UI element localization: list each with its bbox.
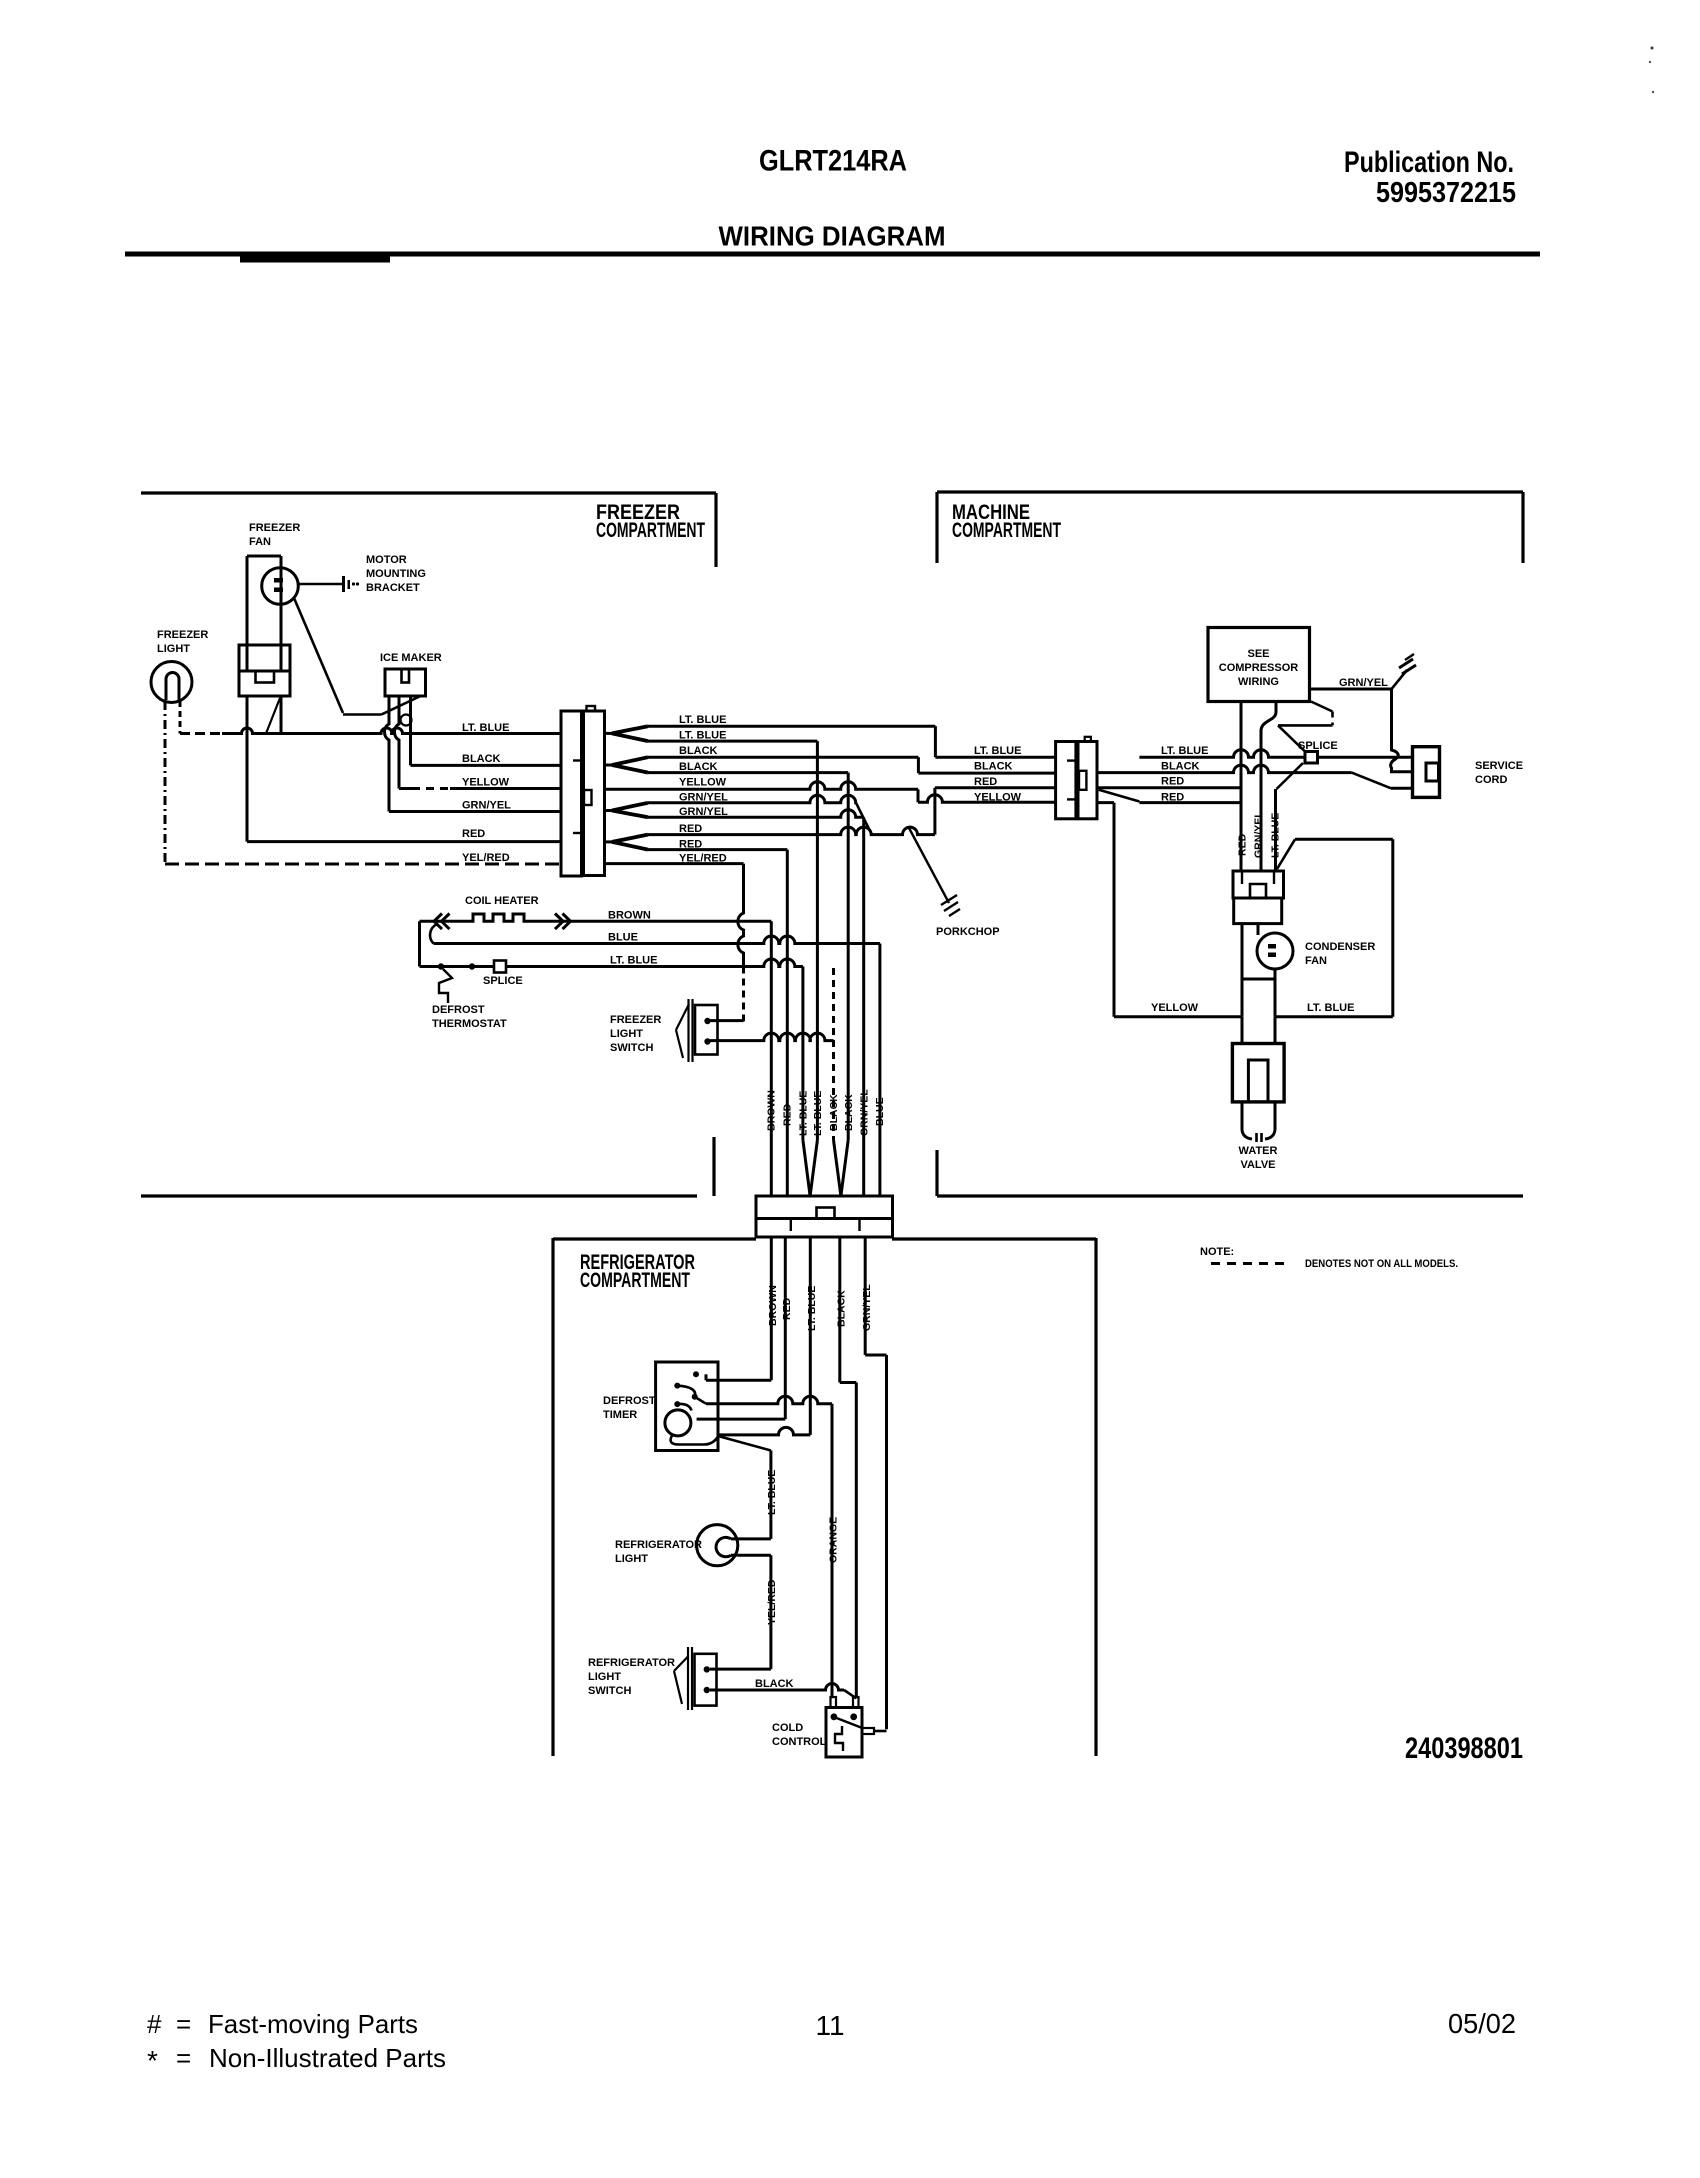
svg-text:Non-Illustrated Parts: Non-Illustrated Parts <box>209 2043 446 2073</box>
wire LT. BLUE condenser loop <box>1277 839 1295 869</box>
svg-text:GRN/YEL: GRN/YEL <box>1253 811 1265 858</box>
refrigerator light switch <box>687 1647 689 1710</box>
wire RED to timer motor <box>784 1237 787 1419</box>
svg-text:YEL/RED: YEL/RED <box>462 852 510 864</box>
svg-text:DEFROST: DEFROST <box>603 1395 656 1407</box>
svg-text:CONTROL: CONTROL <box>772 1736 827 1748</box>
wire BLACK dashed down to bundle <box>832 968 835 1140</box>
svg-text:BLACK: BLACK <box>843 1094 855 1131</box>
refrigerator border top-left segment <box>553 1237 756 1240</box>
wire YELLOW through to machine <box>605 782 918 789</box>
wire YEL/RED right side <box>605 862 744 865</box>
svg-text:LIGHT: LIGHT <box>157 643 190 655</box>
defrost timer <box>656 1362 718 1451</box>
ice maker connector <box>385 669 426 696</box>
svg-text:VALVE: VALVE <box>1240 1159 1275 1171</box>
svg-text:GRN/YEL: GRN/YEL <box>861 1284 873 1331</box>
wire BLACK freezer side <box>411 764 562 767</box>
svg-text:YEL/RED: YEL/RED <box>766 1579 778 1625</box>
freezer fan connector block <box>239 645 290 696</box>
svg-text:BROWN: BROWN <box>767 1285 779 1326</box>
svg-text:BROWN: BROWN <box>608 910 651 922</box>
svg-text:RED: RED <box>1161 776 1184 788</box>
wire RED upper to machine <box>648 827 935 835</box>
svg-text:LT. BLUE: LT. BLUE <box>610 955 657 967</box>
svg-text:MOUNTING: MOUNTING <box>366 568 426 580</box>
svg-text:COLD: COLD <box>772 1722 803 1734</box>
machine border bottom <box>937 1194 1523 1197</box>
machine border left stub top <box>935 492 938 563</box>
wire RED down to refrigerator bundle <box>648 848 787 851</box>
svg-text:DEFROST: DEFROST <box>432 1004 485 1016</box>
wire fan left pin down <box>246 696 249 842</box>
freezer fan motor <box>262 568 299 605</box>
svg-text:GRN/YEL: GRN/YEL <box>1339 677 1388 689</box>
svg-text:LT. BLUE: LT. BLUE <box>812 1091 824 1136</box>
svg-text:THERMOSTAT: THERMOSTAT <box>432 1018 507 1030</box>
freezer border right stub top <box>714 493 717 567</box>
condenser fan <box>1241 924 1244 1017</box>
svg-text:YELLOW: YELLOW <box>462 777 510 789</box>
svg-text:COMPARTMENT: COMPARTMENT <box>952 519 1061 542</box>
svg-text:NOTE:: NOTE: <box>1200 1246 1234 1258</box>
water valve <box>1241 1017 1244 1044</box>
svg-text:FAN: FAN <box>249 536 271 548</box>
svg-text:5995372215: 5995372215 <box>1376 177 1516 209</box>
main connector (freezer/machine harness) <box>561 711 582 876</box>
svg-text:YELLOW: YELLOW <box>1151 1002 1199 1014</box>
wire LT. BLUE freezer side <box>222 728 561 733</box>
wire switch bottom to BLACK dashed <box>710 1033 834 1040</box>
svg-text:BLUE: BLUE <box>608 932 638 944</box>
motor mounting bracket <box>298 583 342 586</box>
see compressor wiring box <box>1208 628 1310 702</box>
svg-text:BLACK: BLACK <box>462 753 501 765</box>
splice <box>1305 752 1318 764</box>
svg-text:COMPARTMENT: COMPARTMENT <box>580 1269 690 1292</box>
svg-text:LT. BLUE: LT. BLUE <box>679 714 726 726</box>
wire RED freezer side <box>247 840 561 843</box>
coil heater left end <box>418 921 421 966</box>
wire ORANGE timer to cold control <box>695 1397 706 1404</box>
svg-text:RED: RED <box>679 838 702 850</box>
wire compressor pin B <box>1261 702 1276 872</box>
machine harness connector <box>1056 742 1076 819</box>
svg-text:240398801: 240398801 <box>1405 1732 1523 1765</box>
svg-text:LT. BLUE: LT. BLUE <box>679 730 726 742</box>
svg-text:Fast-moving Parts: Fast-moving Parts <box>208 2009 418 2039</box>
freezer light <box>151 662 192 703</box>
freezer fan housing <box>246 556 249 671</box>
wire RED second row <box>1099 790 1140 802</box>
svg-text:BLACK: BLACK <box>836 1290 848 1327</box>
service cord <box>1413 747 1440 798</box>
svg-text:SPLICE: SPLICE <box>483 975 523 987</box>
svg-text:FREEZER: FREEZER <box>610 1014 661 1026</box>
machine border top <box>937 490 1523 493</box>
paper speck marks top right <box>1651 47 1654 50</box>
svg-text:GRN/YEL: GRN/YEL <box>679 806 728 818</box>
porkchop pointer <box>909 828 949 903</box>
freezer border bottom <box>141 1194 697 1197</box>
svg-text:MOTOR: MOTOR <box>366 554 407 566</box>
svg-text:LIGHT: LIGHT <box>588 1671 621 1683</box>
wire BLUE <box>430 924 437 944</box>
svg-text:GRN/YEL: GRN/YEL <box>462 800 511 812</box>
svg-text:ORANGE: ORANGE <box>828 1517 840 1563</box>
wire BROWN down to refrigerator bundle <box>770 921 773 1196</box>
svg-text:RED: RED <box>1161 792 1184 804</box>
wire switch top to YEL/RED <box>710 1019 744 1022</box>
coil heater right chevrons <box>555 914 571 930</box>
wire freezer light right lead (dashed) <box>179 701 182 734</box>
wire LT. BLUE to machine compartment <box>648 725 935 728</box>
svg-text:CORD: CORD <box>1475 774 1507 786</box>
svg-text:SWITCH: SWITCH <box>588 1685 631 1697</box>
svg-text:SEE: SEE <box>1247 648 1269 660</box>
svg-text:LT. BLUE: LT. BLUE <box>806 1286 818 1331</box>
wire light bottom YEL/RED to switch <box>738 1554 771 1557</box>
svg-text:SWITCH: SWITCH <box>610 1042 653 1054</box>
svg-text:WATER: WATER <box>1239 1145 1278 1157</box>
compressor overload relay <box>1233 871 1284 898</box>
svg-text:PORKCHOP: PORKCHOP <box>936 926 1000 938</box>
svg-text:GLRT214RA: GLRT214RA <box>759 145 907 178</box>
wire LT. BLUE defrost circuit <box>420 959 803 967</box>
svg-text:=: = <box>176 2043 191 2073</box>
wire fan diagonal lead <box>266 698 280 734</box>
wire GRN/YEL down to cold control <box>864 1237 867 1355</box>
splice diagonals <box>1278 725 1305 751</box>
freezer compartment border top <box>141 491 716 494</box>
svg-text:REFRIGERATOR: REFRIGERATOR <box>615 1539 702 1551</box>
svg-text:BLACK: BLACK <box>828 1094 840 1131</box>
svg-text:RED: RED <box>679 823 702 835</box>
svg-text:COMPARTMENT: COMPARTMENT <box>596 519 705 542</box>
svg-text:COIL HEATER: COIL HEATER <box>465 895 539 907</box>
svg-text:DENOTES NOT ON ALL MODELS.: DENOTES NOT ON ALL MODELS. <box>1305 1258 1458 1270</box>
svg-text:LT. BLUE: LT. BLUE <box>766 1470 778 1515</box>
refrigerator harness connector <box>756 1196 893 1237</box>
svg-text:CONDENSER: CONDENSER <box>1305 941 1375 953</box>
svg-text:RED: RED <box>781 1297 793 1320</box>
wire GRN/YEL down to service cord <box>1391 689 1413 772</box>
svg-text:ICE MAKER: ICE MAKER <box>380 652 442 664</box>
svg-text:BLACK: BLACK <box>679 745 718 757</box>
crimp pair RED <box>605 840 612 843</box>
svg-text:RED: RED <box>782 1103 794 1126</box>
cold control <box>826 1708 862 1758</box>
svg-text:FAN: FAN <box>1305 955 1327 967</box>
svg-text:LT. BLUE: LT. BLUE <box>974 745 1021 757</box>
machine border right stub top <box>1521 492 1524 563</box>
svg-text:05/02: 05/02 <box>1448 2008 1516 2039</box>
machine border left stub bottom <box>935 1150 938 1196</box>
chassis ground <box>1399 659 1413 668</box>
wire BLACK to machine compartment <box>648 756 918 759</box>
freezer light switch <box>687 999 689 1062</box>
refrigerator border right <box>1094 1238 1097 1756</box>
svg-text:REFRIGERATOR: REFRIGERATOR <box>588 1657 675 1669</box>
svg-text:LT. BLUE: LT. BLUE <box>1161 745 1208 757</box>
wire light top to LT. BLUE <box>738 1537 771 1540</box>
wire freezer light to YEL/RED (dashed) <box>164 701 167 864</box>
bundle V-merge BLACK <box>834 1140 841 1196</box>
wire compressor pin A <box>1240 702 1243 872</box>
svg-text:TIMER: TIMER <box>603 1409 637 1421</box>
svg-text:LT. BLUE: LT. BLUE <box>798 1091 810 1136</box>
wire GRN/YEL freezer side <box>389 810 561 813</box>
wire BROWN to defrost timer <box>770 1237 773 1380</box>
svg-text:BLACK: BLACK <box>1161 761 1200 773</box>
wire BLACK down to cold control <box>838 1237 841 1383</box>
svg-text:LT. BLUE: LT. BLUE <box>462 722 509 734</box>
wire motor to ice maker <box>294 598 343 713</box>
svg-text:GRN/YEL: GRN/YEL <box>859 1089 871 1136</box>
svg-text:LIGHT: LIGHT <box>615 1553 648 1565</box>
wire BLACK machine to service cord <box>1097 765 1352 772</box>
svg-text:RED: RED <box>1237 833 1249 856</box>
coil heater left chevrons <box>434 914 450 930</box>
ice maker pin 2 to YELLOW <box>395 696 400 789</box>
crimp pair LT. BLUE <box>605 732 612 735</box>
wire YEL/RED down with wiggles <box>738 864 744 967</box>
svg-text:BLACK: BLACK <box>755 1678 794 1690</box>
wire GRN/YEL upper to junction <box>648 795 856 803</box>
svg-text:SPLICE: SPLICE <box>1298 740 1338 752</box>
wire switch top to YEL/RED <box>710 1668 771 1671</box>
wire compressor dashed branch <box>1311 702 1333 712</box>
ice maker pin 1 to GRN/YEL <box>385 696 390 812</box>
svg-text:WIRING: WIRING <box>1238 676 1279 688</box>
refrigerator light <box>697 1525 738 1566</box>
wire LT. BLUE to timer <box>809 1237 812 1435</box>
wire LT. BLUE branch to refrigerator light <box>718 1436 771 1451</box>
ice maker pin loop <box>401 715 412 726</box>
svg-text:=: = <box>176 2009 191 2039</box>
svg-text:YELLOW: YELLOW <box>974 792 1022 804</box>
title rule <box>125 252 1540 257</box>
defrost thermostat <box>438 963 444 969</box>
refrigerator border top-right segment <box>892 1237 1096 1240</box>
wire LT. BLUE down to refrigerator bundle <box>648 740 817 743</box>
wire YELLOW to water valve <box>1114 1015 1242 1018</box>
svg-text:LT. BLUE: LT. BLUE <box>1307 1002 1354 1014</box>
svg-text:BRACKET: BRACKET <box>366 582 420 594</box>
svg-text:BLACK: BLACK <box>679 761 718 773</box>
svg-text:YEL/RED: YEL/RED <box>679 852 727 864</box>
wire RED machine row <box>1097 786 1241 789</box>
svg-text:RED: RED <box>462 828 485 840</box>
wire BLACK down to refrigerator bundle <box>648 771 848 774</box>
wire GRN/YEL down to refrigerator bundle <box>648 810 864 818</box>
svg-text:Publication No.: Publication No. <box>1344 146 1514 179</box>
svg-text:BROWN: BROWN <box>766 1090 778 1131</box>
ice maker pin 3 to BLACK <box>409 696 412 765</box>
svg-text:*: * <box>147 2045 158 2076</box>
svg-text:FREEZER: FREEZER <box>249 522 300 534</box>
svg-text:BLACK: BLACK <box>974 761 1013 773</box>
crimp pair BLACK <box>605 764 612 767</box>
refrigerator border left <box>551 1238 554 1756</box>
svg-text:11: 11 <box>815 2010 844 2041</box>
wire fan right pin <box>280 696 283 734</box>
splice <box>494 961 506 973</box>
svg-text:#: # <box>147 2009 162 2039</box>
svg-text:BLUE: BLUE <box>874 1097 886 1126</box>
svg-text:YELLOW: YELLOW <box>679 777 727 789</box>
bundle V-merge LT. BLUE <box>803 1140 810 1196</box>
svg-text:GRN/YEL: GRN/YEL <box>679 792 728 804</box>
wire switch bottom BLACK to cold control <box>710 1684 844 1690</box>
svg-text:SERVICE: SERVICE <box>1475 760 1523 772</box>
svg-text:FREEZER: FREEZER <box>157 629 208 641</box>
wire YEL/RED dashed horizontal <box>165 863 561 866</box>
svg-text:LIGHT: LIGHT <box>610 1028 643 1040</box>
svg-text:RED: RED <box>974 776 997 788</box>
coil heater element (BROWN wire) <box>420 914 772 921</box>
freezer border right stub bottom <box>712 1137 715 1196</box>
svg-text:COMPRESSOR: COMPRESSOR <box>1219 662 1299 674</box>
wire YELLOW down from connector <box>1097 801 1114 804</box>
svg-text:LT. BLUE: LT. BLUE <box>1270 813 1282 858</box>
svg-text:WIRING DIAGRAM: WIRING DIAGRAM <box>719 221 946 252</box>
wire YELLOW freezer side <box>399 787 412 790</box>
crimp pair GRN/YEL <box>605 809 612 812</box>
wire LT. BLUE machine to service cord <box>1139 750 1412 757</box>
